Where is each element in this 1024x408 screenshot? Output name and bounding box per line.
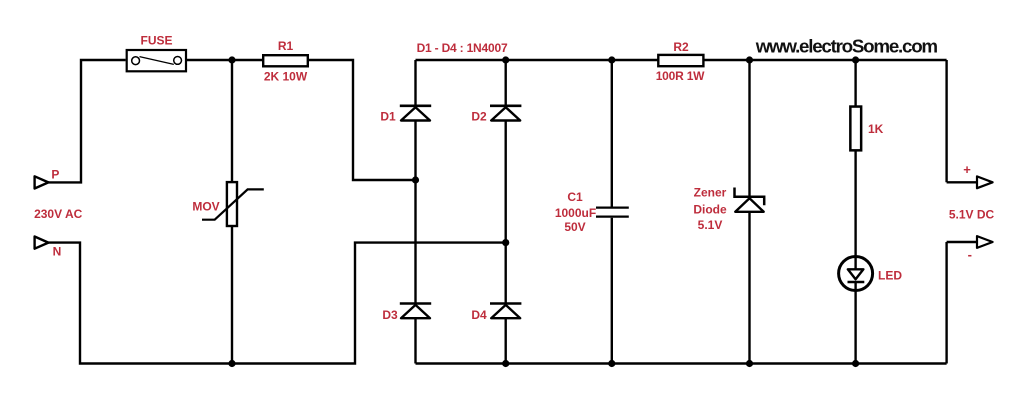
svg-text:R1: R1 — [278, 39, 294, 53]
svg-text:www.electroSome.com: www.electroSome.com — [755, 36, 938, 57]
svg-text:FUSE: FUSE — [140, 34, 172, 48]
svg-text:2K 10W: 2K 10W — [264, 70, 308, 84]
svg-text:5.1V: 5.1V — [698, 218, 723, 232]
svg-text:Diode: Diode — [693, 203, 727, 217]
svg-text:+: + — [963, 162, 971, 177]
svg-text:100R 1W: 100R 1W — [656, 69, 705, 83]
svg-text:LED: LED — [878, 269, 902, 283]
svg-text:D1: D1 — [380, 109, 396, 123]
svg-text:D4: D4 — [471, 308, 487, 322]
svg-text:MOV: MOV — [192, 200, 219, 214]
svg-text:D2: D2 — [471, 109, 487, 123]
svg-text:C1: C1 — [567, 190, 583, 204]
svg-text:D3: D3 — [382, 308, 398, 322]
svg-text:N: N — [53, 244, 62, 258]
svg-text:-: - — [968, 247, 972, 262]
svg-text:50V: 50V — [564, 220, 585, 234]
svg-text:D1 - D4 : 1N4007: D1 - D4 : 1N4007 — [417, 41, 508, 55]
svg-text:5.1V DC: 5.1V DC — [949, 207, 995, 221]
svg-text:1K: 1K — [868, 122, 884, 136]
svg-text:Zener: Zener — [694, 186, 727, 200]
svg-text:1000uF: 1000uF — [555, 206, 596, 220]
svg-text:230V AC: 230V AC — [34, 207, 83, 221]
svg-text:P: P — [51, 168, 59, 182]
svg-text:R2: R2 — [673, 40, 689, 54]
